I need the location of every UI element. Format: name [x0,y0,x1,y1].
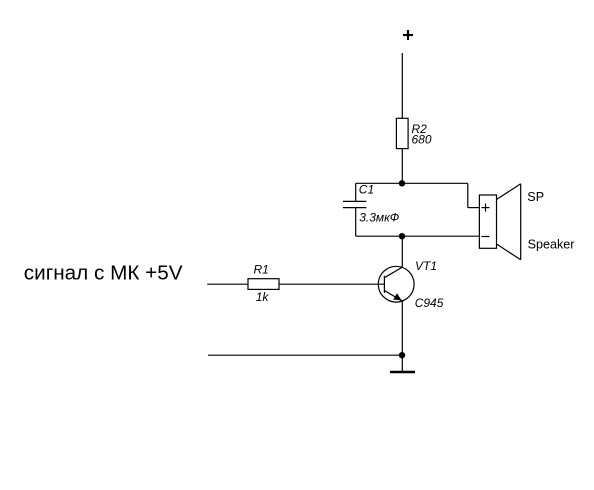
resistor R1 [248,279,279,290]
wire top rail corner to speaker plus [468,183,480,207]
node junction middle [399,233,405,239]
power plus terminal [403,30,413,40]
svg-text:R1: R1 [254,262,269,276]
wire bottom ground rail [208,354,402,356]
R1 labels [254,262,270,304]
wire collector [401,236,403,267]
svg-text:680: 680 [412,133,432,147]
transistor VT1 [378,266,414,302]
wire emitter to ground rail [401,301,403,355]
wire bottom rail [356,235,480,237]
VT1 labels [415,259,444,310]
wire R1 to base [279,283,384,285]
wire to ground symbol [401,355,403,371]
wire top rail [356,182,468,184]
wire input to R1 [207,283,248,285]
speaker minus terminal mark [482,236,490,238]
transistor emitter arrow [393,293,401,300]
wire R2 to top rail [401,149,403,184]
svg-text:3.3мкФ: 3.3мкФ [359,211,400,225]
svg-text:VT1: VT1 [415,259,437,273]
svg-text:C1: C1 [359,183,374,197]
wire plus to R2 [401,53,403,118]
svg-text:Speaker: Speaker [528,238,575,252]
svg-text:сигнал с МК +5V: сигнал с МК +5V [24,262,183,285]
svg-text:C945: C945 [415,296,444,310]
speaker horn [497,184,521,260]
ground [390,371,415,373]
C1 labels [359,183,400,225]
capacitor C1 [343,183,367,236]
R2 value labels [412,122,432,147]
node junction ground [399,352,405,358]
resistor R2 [396,118,408,148]
speaker plus terminal mark [482,204,490,212]
svg-text:1k: 1k [256,290,270,304]
node junction top [399,180,405,186]
svg-text:SP: SP [527,190,544,204]
speaker SP body [479,195,496,248]
